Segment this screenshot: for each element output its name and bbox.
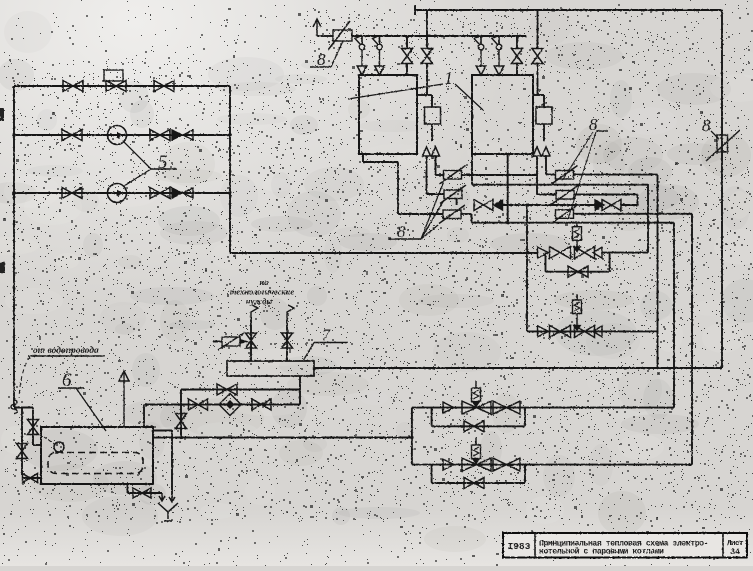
- valve bypass A: [568, 266, 588, 277]
- svg-text:от водопровода: от водопровода: [33, 345, 99, 356]
- title block frame: [503, 533, 747, 558]
- text tech needs: [230, 277, 295, 306]
- pipe tank to pumps: [153, 437, 412, 439]
- svg-text:8: 8: [589, 115, 598, 134]
- motor valve on top line: [104, 70, 126, 92]
- arrow assembly B in: [538, 326, 549, 337]
- orifice right 2: [552, 186, 578, 205]
- leader label 8 vent: [331, 41, 343, 67]
- gauge boiler1: [425, 107, 441, 124]
- tank drain pipe: [128, 484, 163, 493]
- pipe water to tank bottom: [22, 477, 41, 479]
- wire riser x657: [657, 175, 659, 368]
- node middle line left: [12, 133, 16, 137]
- wire manifold drop: [299, 376, 301, 405]
- valve water a: [17, 444, 28, 459]
- orifice 8 on vent line: [328, 21, 352, 50]
- text water supply: [28, 345, 105, 356]
- valve blowdown right: [595, 200, 621, 211]
- pipe top recirculation line: [14, 85, 230, 87]
- safety valve boiler1 b: [373, 36, 385, 75]
- valve bottom A 1: [462, 401, 491, 414]
- leader label 1 to boiler2: [455, 84, 483, 110]
- gate valve boiler2 top: [532, 10, 543, 95]
- valve water tank inlet: [23, 474, 38, 483]
- safety valve boiler2 b: [492, 36, 504, 75]
- arrow bottom A in: [443, 402, 454, 413]
- pipe bottom assembly A: [412, 407, 674, 409]
- valve assembly A 2: [575, 247, 595, 259]
- title year: [508, 541, 531, 552]
- valve bypass bottom A: [464, 421, 484, 432]
- pipe orifice right2 out: [574, 194, 638, 196]
- valve right on top line: [154, 81, 174, 92]
- wire right steam downcomer: [721, 10, 723, 368]
- orifice left 3: [439, 205, 465, 224]
- arrow assembly A in: [538, 247, 549, 258]
- tank vent arrow: [119, 371, 129, 427]
- pipe main steam header: [415, 5, 722, 15]
- pipe orifice left2 out: [456, 199, 458, 206]
- pipe assembly B: [527, 330, 658, 332]
- check valve boiler2 left: [533, 147, 541, 156]
- svg-text:34: 34: [730, 547, 740, 557]
- valve bottom B 2: [493, 458, 520, 471]
- svg-text:технологические: технологические: [230, 287, 295, 297]
- node blowdown junction: [526, 203, 530, 207]
- wire boiler2 col B: [546, 156, 556, 175]
- valve strainer right: [252, 399, 271, 410]
- tank drain valve: [133, 488, 151, 498]
- thermo B: [573, 296, 582, 332]
- drain arrow b: [169, 497, 175, 502]
- label 8 vent: [310, 50, 331, 69]
- safety valve boiler1 a: [355, 36, 367, 75]
- strainer: [219, 394, 241, 416]
- wire boiler2 drain left: [472, 154, 648, 185]
- valve on top line: [63, 81, 83, 92]
- pipe jog line: [472, 222, 675, 224]
- title sheet: [727, 540, 744, 557]
- wire riser x692: [691, 214, 693, 465]
- gate valve boiler1 top: [422, 10, 433, 95]
- vent arrow atmosphere: [313, 19, 333, 36]
- valve bypass bottom B: [464, 478, 484, 489]
- wire boiler1 col A: [427, 156, 445, 194]
- valve assembly A 1: [550, 247, 571, 259]
- leader 8L to orifice3: [421, 225, 438, 239]
- boiler 2: [472, 75, 533, 154]
- leader label 6: [76, 388, 106, 431]
- leader label 5 to pump 5b: [124, 169, 151, 186]
- arrow bottom B in: [443, 459, 454, 470]
- bypass bottom A: [432, 408, 525, 427]
- pipe strainer line: [144, 404, 300, 406]
- node boiler2 drain junction: [506, 221, 509, 224]
- pipe water line split: [14, 407, 33, 409]
- pipe bottom assembly B: [412, 464, 692, 466]
- pipe main feed line: [314, 367, 722, 369]
- valve strainer left: [189, 399, 208, 410]
- svg-text:8: 8: [317, 50, 326, 69]
- label 8 right downcomer: [702, 116, 719, 139]
- valve bottom B 1: [462, 458, 491, 471]
- label 8 left set: [389, 222, 421, 241]
- leader 8L to orifice2: [421, 200, 444, 239]
- check valve boiler1 right: [432, 147, 440, 156]
- vent pipe manifold b: [287, 305, 294, 361]
- node assembly A junction: [526, 251, 530, 255]
- manifold 7: [227, 361, 314, 376]
- scan edge mark b: [0, 262, 5, 273]
- thermo A: [573, 223, 582, 253]
- pipe orifice right3 out: [574, 213, 693, 215]
- thermo bottom B: [472, 438, 481, 465]
- node bottom line left: [12, 191, 16, 195]
- wire strainer to tank: [143, 405, 145, 428]
- svg-text:котельной с паровыми котлами: котельной с паровыми котлами: [539, 548, 664, 557]
- pipe blowdown mid: [503, 204, 596, 206]
- valve blowdown left: [474, 200, 503, 211]
- valve strainer bypass: [217, 384, 237, 395]
- vent valve manifold a: [246, 333, 257, 348]
- bypass A: [546, 253, 610, 272]
- orifice right 3: [552, 205, 578, 224]
- gate valve boiler2 steam: [512, 36, 523, 75]
- wire boiler1 drain: [363, 154, 443, 214]
- label 1: [444, 68, 453, 88]
- gate valve boiler1 steam: [402, 36, 413, 75]
- tank float: [44, 437, 64, 452]
- vent pipe manifold a: [251, 305, 258, 361]
- wire left main riser: [13, 86, 15, 407]
- funnel: [158, 503, 178, 521]
- svg-text:1: 1: [444, 68, 453, 88]
- drain arrow a: [159, 493, 165, 501]
- wire assembly B feed: [526, 205, 528, 331]
- node bottom line right: [228, 191, 232, 195]
- gauge boiler1 piping: [417, 95, 432, 141]
- loop seal: [11, 400, 17, 414]
- arrow assembly A out: [593, 247, 648, 258]
- svg-text:8: 8: [702, 116, 711, 135]
- check valve after pump 5b: [172, 188, 193, 198]
- valve water b: [28, 420, 39, 435]
- svg-text:нужды: нужды: [246, 296, 273, 306]
- pipe network supply line: [14, 134, 230, 136]
- wire water branch a: [21, 408, 23, 476]
- scan mottle texture: [290, 115, 318, 135]
- pipe secondary header: [352, 35, 526, 37]
- svg-text:7: 7: [322, 327, 331, 344]
- check valve boiler2 right: [542, 147, 550, 156]
- thermo bottom A: [472, 381, 481, 408]
- leader label 5 to pump 5a: [124, 142, 151, 169]
- safety valve boiler2 a: [474, 36, 486, 75]
- node middle line right: [228, 133, 232, 137]
- check valve after pump 5a: [172, 130, 193, 140]
- node feed junction: [179, 436, 182, 439]
- pipe blowdown to riser: [621, 195, 638, 206]
- valve after pump 5a: [150, 130, 170, 141]
- svg-text:8: 8: [397, 222, 406, 241]
- wire boiler2 drain mid: [507, 154, 509, 223]
- pipe from loop to blowdown assembly: [230, 252, 537, 254]
- label 7: [314, 327, 348, 344]
- pump 5a: [108, 126, 127, 145]
- wire bypass drop: [180, 390, 182, 438]
- orifice right 1: [552, 166, 578, 185]
- wire boiler1 col B: [436, 156, 445, 175]
- pipe orifice right1 out: [574, 174, 658, 176]
- leader label 7: [303, 343, 314, 362]
- wire water branch b: [33, 408, 41, 446]
- label 6: [58, 370, 84, 391]
- wire riser x674: [673, 223, 675, 408]
- leader 8R a: [562, 132, 593, 181]
- leader 8R b: [568, 132, 596, 219]
- wire bottom feed riser: [410, 408, 413, 465]
- valve on bottom line: [62, 188, 82, 199]
- label 5: [151, 152, 177, 173]
- leader 8L to orifice1: [421, 181, 444, 239]
- pipe network return line: [14, 192, 230, 194]
- svg-text:5: 5: [158, 152, 168, 173]
- orifice 8 on right downcomer: [706, 130, 740, 161]
- leader water supply: [19, 357, 30, 398]
- orifice left 1: [440, 166, 466, 185]
- tank 6: [41, 427, 153, 484]
- bypass bottom B: [432, 465, 525, 483]
- pipe orifice left1 out: [462, 174, 538, 176]
- wire left loop right riser: [229, 86, 231, 253]
- title description: [539, 540, 708, 557]
- valve bottom A 2: [493, 401, 520, 414]
- scan edge mark a: [0, 108, 4, 121]
- valve assembly B 2: [575, 325, 595, 337]
- leader label 1 to boiler1: [348, 84, 443, 99]
- svg-text:на: на: [260, 277, 270, 287]
- wire riser x648: [647, 185, 649, 253]
- valve assembly B 1: [550, 325, 571, 337]
- valve feed drop: [176, 414, 187, 429]
- wire boiler2 col A: [537, 156, 556, 195]
- svg-text:I983: I983: [508, 541, 531, 552]
- orifice manifold: [213, 333, 249, 350]
- gauge boiler2: [536, 107, 552, 124]
- valve on middle line: [62, 130, 82, 141]
- check valve boiler1 left: [423, 147, 431, 156]
- boiler 1: [359, 75, 417, 154]
- pump 5b: [108, 184, 127, 203]
- tank heating coil: [48, 453, 143, 474]
- label 8 right set: [589, 115, 608, 134]
- pipe orifice left3 out: [461, 214, 472, 223]
- orifice left 2: [440, 185, 466, 204]
- pipe strainer bypass: [181, 389, 300, 391]
- vent valve manifold b: [282, 333, 293, 348]
- tank overflow: [153, 431, 172, 498]
- gauge boiler2 piping: [533, 95, 544, 141]
- arrow assembly B out: [593, 326, 602, 337]
- valve after pump 5b: [150, 188, 170, 199]
